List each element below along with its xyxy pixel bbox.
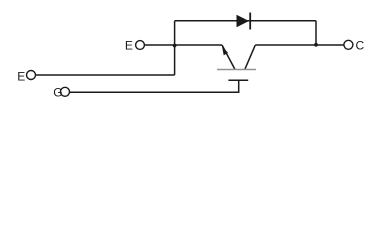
svg-text:E: E <box>17 70 25 84</box>
svg-text:G: G <box>53 86 62 100</box>
svg-text:E: E <box>125 39 133 53</box>
svg-text:C: C <box>356 38 365 52</box>
